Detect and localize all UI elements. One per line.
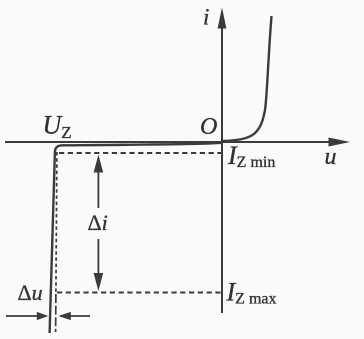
svg-text:Δi: Δi xyxy=(88,210,108,235)
svg-text:O: O xyxy=(200,114,217,140)
svg-text:Δu: Δu xyxy=(18,280,43,305)
svg-text:u: u xyxy=(325,144,337,170)
delta-i double arrow xyxy=(94,155,104,292)
svg-text:i: i xyxy=(203,5,209,30)
i axis xyxy=(218,8,227,314)
svg-text:IZ min: IZ min xyxy=(227,141,275,171)
delta-u left arrow xyxy=(6,312,48,320)
forward curve xyxy=(223,16,272,141)
vertical dashed line at Uz xyxy=(56,152,57,294)
IZmax dashed line xyxy=(57,292,221,294)
reverse curve with breakdown xyxy=(50,143,222,333)
u axis xyxy=(5,138,350,147)
delta-u right arrow xyxy=(58,312,90,320)
svg-text:UZ: UZ xyxy=(43,111,72,143)
svg-text:IZ max: IZ max xyxy=(226,277,277,307)
IZmin dashed line xyxy=(59,152,221,154)
